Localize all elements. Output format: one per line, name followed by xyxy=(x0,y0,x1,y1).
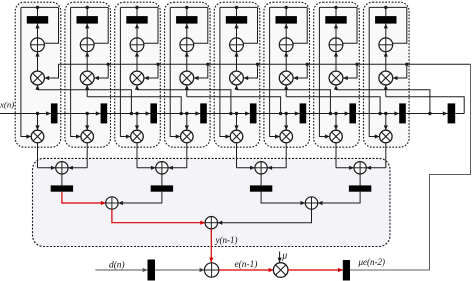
wire delayed x into update multiplier, cell 2 xyxy=(86,85,88,97)
wire delayed x into update multiplier, cell 6 xyxy=(285,85,287,97)
wire update product to adder, cell 5 xyxy=(236,52,238,71)
wire adder to weight register, cell 5 xyxy=(236,7,238,16)
wire x tap to output multiplier, cell 2 xyxy=(86,112,89,115)
adder (weight accumulate), cell 6 xyxy=(279,38,293,52)
adder (weight accumulate), cell 2 xyxy=(80,38,94,52)
pipeline register, tree level 1, #4 xyxy=(349,185,371,191)
wire delayed x into update multiplier, cell 4 xyxy=(186,85,188,97)
wire x tap to output multiplier, cell 4 xyxy=(185,112,188,115)
svg-text:μe(n-2): μe(n-2) xyxy=(358,257,386,267)
wire adder B1 to adder C (red) xyxy=(112,209,205,223)
wire delayed x into update multiplier, cell 8 xyxy=(385,85,387,97)
register z^-1 (extra, after cell 8) xyxy=(443,111,448,115)
adder (weight accumulate), cell 5 xyxy=(230,38,244,52)
multiplier (mu-e times x), cell 4 xyxy=(180,71,194,85)
multiplier (mu-e times x), cell 8 xyxy=(379,71,393,85)
tap cell 3 (dashed block) xyxy=(115,2,161,147)
wire y(n-1) to error adder (red) xyxy=(210,229,212,263)
wire update product to adder, cell 6 xyxy=(285,52,287,71)
multiplier (mu-e times x), cell 3 xyxy=(130,71,144,85)
register z^-1 on x bus, cell 8 xyxy=(394,111,399,115)
wire x tap to output multiplier, cell 1 xyxy=(36,112,39,115)
register z^-1 on x bus, cell 3 xyxy=(146,111,151,115)
wire tap output to adder tree, cell 7 xyxy=(335,143,337,168)
wire bus stub after extra register xyxy=(455,113,464,115)
register z^-1 on x bus, cell 5 xyxy=(245,111,250,115)
svg-text:d(n): d(n) xyxy=(109,259,125,270)
wire adder to weight register, cell 7 xyxy=(335,7,337,16)
wire adder to weight register, cell 1 xyxy=(37,7,39,16)
wire register 3 to adder B2 xyxy=(261,192,305,203)
wire mu-e drop into update multiplier, cell 5 xyxy=(243,64,257,78)
wire tap pair into adder A1 xyxy=(38,167,56,169)
wire tap pair into adder A3 xyxy=(237,167,255,169)
wire mu-e drop into update multiplier, cell 2 xyxy=(94,64,108,78)
multiplier (w times x), cell 7 xyxy=(330,130,343,143)
wire update product to adder, cell 2 xyxy=(86,52,88,71)
wire e(n-1) to mu multiplier (red) xyxy=(219,269,274,271)
wire mu-e drop into update multiplier, cell 4 xyxy=(194,64,208,78)
wire weight feedback to adder, cell 8 xyxy=(393,7,407,43)
wire x(n) bus xyxy=(0,113,448,115)
tap cell 4 (dashed block) xyxy=(165,2,211,147)
multiplier (w times x), cell 5 xyxy=(230,130,243,143)
wire mu-e to output register (red) xyxy=(288,269,343,271)
adder B2 (tree level 2 right) xyxy=(305,197,317,209)
wire adder to weight register, cell 4 xyxy=(186,7,188,16)
wire mu-e drop into update multiplier, cell 3 xyxy=(144,64,158,78)
wire x tap to output multiplier, cell 5 xyxy=(235,112,238,115)
wire register 2 to adder B1 xyxy=(118,192,162,203)
wire weight distribution, cell 6 xyxy=(270,6,308,8)
wire x tap to output multiplier, cell 6 xyxy=(285,112,288,115)
pipeline register, tree level 1, #1 xyxy=(51,185,73,191)
wire tap output to adder tree, cell 4 xyxy=(186,143,188,168)
multiplier (w times x), cell 1 xyxy=(31,130,44,143)
weight register W3 xyxy=(126,16,147,24)
wire delayed x into update multiplier, cell 1 xyxy=(37,85,39,90)
multiplier (mu-e times x), cell 6 xyxy=(279,71,293,85)
adder-tree pipeline block (dashed box) xyxy=(33,158,391,246)
wire register 4 to adder B2 xyxy=(318,192,360,203)
adder (weight accumulate), cell 3 xyxy=(130,38,144,52)
wire tap output to adder tree, cell 8 xyxy=(385,143,387,168)
wire mu-e drop into update multiplier, cell 7 xyxy=(343,64,357,78)
wire weight feedback to adder, cell 7 xyxy=(343,7,357,43)
multiplier (mu-e times x), cell 2 xyxy=(80,71,94,85)
wire weight left rail to output multiplier, cell 2 xyxy=(71,7,81,136)
wire x tap to output multiplier, cell 8 xyxy=(384,112,387,115)
tap cell 7 (dashed block) xyxy=(314,2,360,147)
multiplier (mu-e times x), cell 1 xyxy=(31,71,45,85)
wire update product to adder, cell 1 xyxy=(37,52,39,71)
multiplier (w times x), cell 2 xyxy=(81,130,94,143)
wire weight left rail to output multiplier, cell 6 xyxy=(270,7,280,136)
wire tap pair into adder A2 xyxy=(137,167,156,169)
register z^-1 on x bus, cell 6 xyxy=(295,111,300,115)
wire delayed x into update multiplier, cell 5 xyxy=(236,85,238,90)
wire update product to adder, cell 7 xyxy=(335,52,337,71)
wire weight left rail to output multiplier, cell 5 xyxy=(220,7,230,136)
adder (error = d - y) xyxy=(204,263,218,277)
wire weight distribution, cell 7 xyxy=(319,6,357,8)
wire weight feedback to adder, cell 6 xyxy=(293,7,307,43)
wire adder A2 to pipeline register xyxy=(161,174,163,185)
tap cell 8 (dashed block) xyxy=(364,2,410,147)
wire adder to weight register, cell 6 xyxy=(285,7,287,16)
wire update product to adder, cell 4 xyxy=(186,52,188,71)
weight register W7 xyxy=(325,16,346,24)
wire mu-e drop into update multiplier, cell 1 xyxy=(44,64,58,78)
weight register W5 xyxy=(226,16,247,24)
wire weight left rail to output multiplier, cell 4 xyxy=(170,7,180,136)
svg-text:y(n-1): y(n-1) xyxy=(215,235,238,245)
adder (weight accumulate), cell 4 xyxy=(180,38,194,52)
wire weight distribution, cell 1 xyxy=(21,6,59,8)
wire adder A1 to pipeline register xyxy=(61,174,63,185)
wire weight left rail to output multiplier, cell 3 xyxy=(120,7,130,136)
adder A3 (tree level 1) xyxy=(255,162,267,174)
wire weight feedback to adder, cell 5 xyxy=(244,7,258,43)
register z^-1 on d(n) xyxy=(148,260,156,281)
wire adder A4 to pipeline register xyxy=(359,174,361,185)
wire tap output to adder tree, cell 5 xyxy=(236,143,238,168)
wire adder to weight register, cell 2 xyxy=(86,7,88,16)
multiplier (mu times e) xyxy=(273,263,288,278)
wire mu-e(n-2) broadcast line xyxy=(59,63,471,65)
adder (weight accumulate), cell 1 xyxy=(31,38,45,52)
wire mu input xyxy=(279,252,281,263)
register z^-1 mu-e xyxy=(343,260,350,281)
wire mu-e(n-2) feedback routing xyxy=(350,64,471,270)
wire update product to adder, cell 8 xyxy=(385,52,387,71)
multiplier (w times x), cell 8 xyxy=(380,130,393,143)
adder A1 (tree level 1) xyxy=(56,162,68,174)
adder C (tree level 3) xyxy=(205,217,217,229)
multiplier (w times x), cell 4 xyxy=(181,130,194,143)
svg-text:x(n): x(n) xyxy=(0,100,14,110)
wire weight distribution, cell 5 xyxy=(220,6,258,8)
wire d(n) input xyxy=(95,269,147,271)
wire weight distribution, cell 4 xyxy=(170,6,208,8)
wire mu-e drop into update multiplier, cell 6 xyxy=(293,64,307,78)
weight register W4 xyxy=(176,16,197,24)
adder (weight accumulate), cell 7 xyxy=(329,38,343,52)
wire delayed x into update multiplier, cell 3 xyxy=(136,85,138,90)
wire adder to weight register, cell 3 xyxy=(136,7,138,16)
multiplier (w times x), cell 3 xyxy=(131,130,144,143)
tap cell 6 (dashed block) xyxy=(264,2,310,147)
wire weight feedback to adder, cell 2 xyxy=(94,7,108,43)
adder (weight accumulate), cell 8 xyxy=(379,38,393,52)
wire tap output to adder tree, cell 6 xyxy=(285,143,287,168)
wire weight feedback to adder, cell 3 xyxy=(144,7,158,43)
wire adder B2 to adder C xyxy=(218,209,312,223)
register z^-1 on x bus, cell 2 xyxy=(96,111,101,115)
svg-text:μ: μ xyxy=(281,250,287,261)
register z^-1 on x bus, cell 7 xyxy=(345,111,350,115)
wire tap output to adder tree, cell 1 xyxy=(37,143,39,168)
tap cell 2 (dashed block) xyxy=(65,2,111,147)
svg-text:e(n-1): e(n-1) xyxy=(235,259,258,270)
wire weight distribution, cell 2 xyxy=(71,6,109,8)
wire x tap to output multiplier, cell 3 xyxy=(135,112,138,115)
wire register 1 to adder B1 (red critical path) xyxy=(62,192,106,203)
multiplier (w times x), cell 6 xyxy=(280,130,293,143)
wire adder A3 to pipeline register xyxy=(260,174,262,185)
wire weight distribution, cell 8 xyxy=(369,6,407,8)
register z^-1 on x bus, cell 1 xyxy=(46,111,51,115)
weight register W6 xyxy=(276,16,297,24)
adder A4 (tree level 1) xyxy=(354,162,366,174)
wire x tap to output multiplier, cell 7 xyxy=(334,112,337,115)
wire weight left rail to output multiplier, cell 7 xyxy=(319,7,329,136)
pipeline register, tree level 1, #3 xyxy=(250,185,272,191)
pipeline register, tree level 1, #2 xyxy=(151,185,173,191)
wire weight left rail to output multiplier, cell 8 xyxy=(369,7,379,136)
wire weight feedback to adder, cell 1 xyxy=(45,7,59,43)
tap cell 5 (dashed block) xyxy=(214,2,260,147)
wire mu-e drop into update multiplier, cell 8 xyxy=(393,64,407,78)
weight register W1 xyxy=(27,16,48,24)
wire tap pair into adder A4 xyxy=(336,167,354,169)
multiplier (mu-e times x), cell 7 xyxy=(329,71,343,85)
register z^-1 on x bus, cell 4 xyxy=(195,111,200,115)
wire d register to error adder xyxy=(155,269,204,271)
multiplier (mu-e times x), cell 5 xyxy=(230,71,244,85)
adder A2 (tree level 1) xyxy=(156,162,168,174)
tap cell 1 (dashed block) xyxy=(15,2,61,147)
wire tap output to adder tree, cell 3 xyxy=(136,143,138,168)
wire adder to weight register, cell 8 xyxy=(385,7,387,16)
wire delayed x into update multiplier, cell 7 xyxy=(335,85,337,90)
wire weight feedback to adder, cell 4 xyxy=(194,7,208,43)
weight register W8 xyxy=(375,16,396,24)
wire update product to adder, cell 3 xyxy=(136,52,138,71)
wire tap output to adder tree, cell 2 xyxy=(86,143,88,168)
wire weight distribution, cell 3 xyxy=(120,6,158,8)
wire weight left rail to output multiplier, cell 1 xyxy=(21,7,31,136)
adder B1 (tree level 2 left) xyxy=(106,197,118,209)
weight register W2 xyxy=(77,16,98,24)
